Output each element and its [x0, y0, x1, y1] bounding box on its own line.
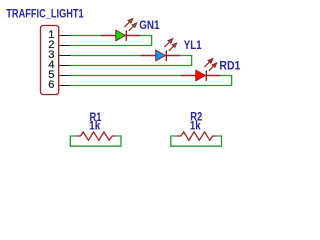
svg-text:1k: 1k	[89, 121, 101, 133]
svg-text:YL1: YL1	[184, 40, 202, 52]
svg-text:GN1: GN1	[139, 20, 160, 32]
svg-text:RD1: RD1	[219, 60, 241, 72]
svg-text:6: 6	[48, 79, 54, 91]
svg-text:TRAFFIC_LIGHT1: TRAFFIC_LIGHT1	[6, 9, 84, 21]
svg-text:1k: 1k	[190, 121, 201, 133]
